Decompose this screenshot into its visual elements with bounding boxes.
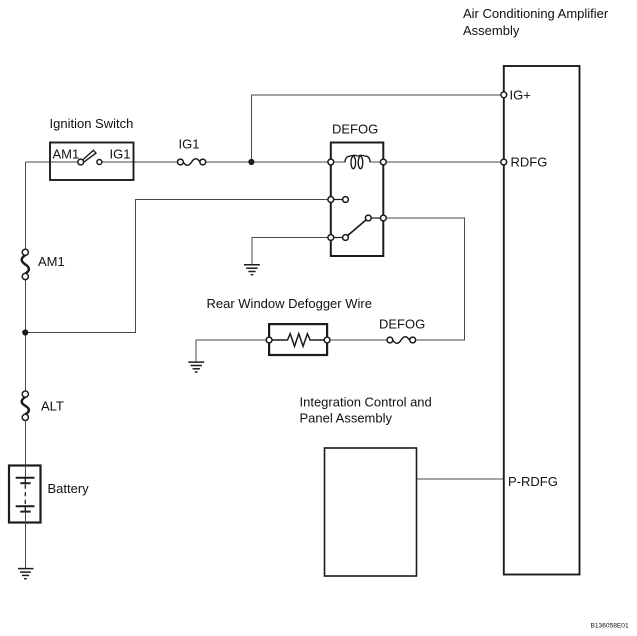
relay pin mid-left (328, 197, 334, 203)
battery plate long bottom (16, 505, 35, 507)
ground: relay coil return (244, 265, 260, 275)
relay DEFOG box (331, 143, 384, 257)
battery dashed cell link (24, 485, 26, 506)
wire: relay inner stub mid-left pin to fixed contact (331, 199, 343, 201)
wire: left vertical x=25.3 battery feed (24, 162, 26, 478)
fuse IG1 (178, 137, 206, 166)
svg-text:Battery: Battery (48, 481, 90, 496)
wire: relay inner stub bottom-left pin to movable contact (331, 237, 343, 239)
svg-text:B136058E01: B136058E01 (591, 623, 629, 630)
svg-text:P-RDFG: P-RDFG (508, 474, 558, 489)
fuse DEFOG (379, 317, 425, 344)
svg-text:DEFOG: DEFOG (379, 317, 425, 332)
relay movable contact (343, 235, 349, 241)
fuse AM1 terminal bottom (22, 273, 28, 279)
ground: defogger wire ground (188, 362, 204, 372)
wire: relay inner stub right contact to right pin (371, 217, 383, 219)
svg-text:Rear Window Defogger Wire: Rear Window Defogger Wire (207, 296, 372, 311)
svg-text:IG+: IG+ (510, 88, 531, 103)
fuse IG1 terminal right (200, 159, 206, 165)
battery plate stub bottom (24, 506, 26, 511)
wire: IG+ branch from junction up and right (251, 95, 503, 162)
fuse AM1 element wave (22, 255, 29, 273)
svg-text:ALT: ALT (41, 399, 64, 414)
fuse ALT element wave (22, 397, 29, 414)
battery plate stub top (24, 478, 26, 484)
battery plate long top (16, 477, 35, 479)
fuse DEFOG terminal right (410, 337, 416, 343)
battery plate short top (20, 482, 30, 484)
svg-text:AM1: AM1 (53, 147, 80, 162)
node: junction dot at IG1 bus / IG+ branch (248, 159, 254, 165)
svg-text:IG1: IG1 (110, 147, 131, 162)
ignition switch box (50, 143, 134, 181)
battery internal wire bottom (24, 512, 26, 523)
svg-text:Assembly: Assembly (463, 23, 520, 38)
integration control and panel assembly box (325, 448, 417, 576)
wire: junction row y=332.5 to relay coil low-side via x=135.7 riser (25, 200, 331, 333)
air conditioning amplifier assembly box (504, 66, 580, 575)
ground: battery negative (18, 569, 34, 579)
wire: relay output y=218 right, down x=464.3, left along y=340 to DEFOG fuse (383, 218, 464, 340)
fuse AM1 terminal top (22, 249, 28, 255)
defogger terminal right (324, 337, 330, 343)
fuse IG1 terminal left (178, 159, 184, 165)
wire: main horizontal bus y=162 from left vertical to relay (25, 161, 504, 163)
relay right contact (365, 215, 371, 221)
relay pin right (380, 215, 386, 221)
relay pin top-left (328, 159, 334, 165)
relay pin bottom-left (328, 235, 334, 241)
svg-text:Ignition Switch: Ignition Switch (50, 116, 134, 131)
switch lever blade (82, 150, 96, 162)
resistor: defogger grid element (272, 334, 325, 347)
fuse AM1 (22, 249, 65, 279)
relay pin top-right (380, 159, 386, 165)
svg-text:RDFG: RDFG (511, 155, 548, 170)
relay switch arm (348, 220, 367, 236)
wire: defogger row y=340 fuse to box and box to ground riser x=196 (196, 340, 390, 362)
svg-text:IG1: IG1 (179, 137, 200, 152)
relay coil (345, 155, 370, 168)
wire: P-RDFG link y=479 (417, 478, 504, 480)
fuse DEFOG element wave (393, 337, 410, 343)
switch contact AM1 (78, 159, 84, 165)
battery internal feed wire top (24, 466, 26, 478)
pin IG+ terminal (501, 92, 507, 98)
battery (9, 466, 89, 523)
svg-text:Integration Control and: Integration Control and (300, 395, 432, 410)
fuse ALT (22, 391, 64, 421)
svg-text:Panel Assembly: Panel Assembly (300, 411, 393, 426)
fuse IG1 element wave (183, 159, 200, 165)
defogger terminal left (266, 337, 272, 343)
node: junction dot at left vertical / y=332.5 row (22, 329, 28, 335)
fuse DEFOG terminal left (387, 337, 393, 343)
rear window defogger wire box (269, 324, 327, 355)
battery plate short bottom (20, 511, 30, 513)
relay fixed contact (NC) (343, 197, 349, 203)
svg-text:Air Conditioning Amplifier: Air Conditioning Amplifier (463, 6, 609, 21)
svg-text:DEFOG: DEFOG (332, 122, 378, 137)
fuse ALT terminal bottom (22, 414, 28, 420)
fuse ALT terminal top (22, 391, 28, 397)
wire: battery to chassis ground (24, 523, 26, 569)
svg-text:AM1: AM1 (38, 254, 65, 269)
switch contact IG1 (97, 160, 102, 165)
wire: relay ground leg y=237.5 then down at x=251.9 (252, 238, 331, 265)
pin RDFG terminal (501, 159, 507, 165)
battery box (9, 466, 41, 523)
